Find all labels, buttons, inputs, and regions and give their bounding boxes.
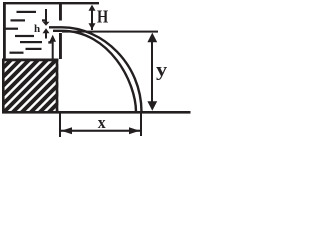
tank right wall upper — [59, 2, 62, 21]
svg-text:H: H — [97, 6, 108, 27]
orifice dimension up arrow — [43, 28, 50, 38]
tank left wall — [3, 2, 6, 59]
x dimension right witness line — [140, 114, 142, 137]
orifice dimension down arrow — [43, 9, 50, 26]
water dash row 2 — [11, 19, 26, 21]
reference line at exit level — [62, 31, 158, 33]
water dash row 7 — [10, 52, 24, 54]
jet lower curve — [53, 31, 136, 112]
pedestal border — [2, 59, 58, 113]
tank top line — [3, 2, 99, 4]
svg-text:y: y — [156, 60, 168, 81]
x dimension left arrowhead — [61, 127, 72, 134]
inner up arrow at orifice bottom — [49, 35, 56, 59]
pedestal hatched block — [0, 0, 170, 120]
x dimension left witness line — [59, 114, 61, 138]
x dimension right arrowhead — [129, 127, 140, 134]
hatching — [0, 0, 62, 120]
jet upper curve — [49, 27, 142, 112]
water dash row 2b — [42, 19, 46, 21]
svg-text:x: x — [98, 112, 107, 132]
ground line — [2, 111, 191, 114]
water dash row 4 — [15, 35, 34, 37]
H dimension up arrow — [89, 5, 96, 30]
water dash row 6 — [26, 48, 42, 50]
svg-text:h: h — [34, 23, 40, 35]
tank right wall lower — [59, 33, 62, 59]
x dimension line — [61, 130, 140, 132]
y dimension line with arrows — [147, 33, 157, 111]
water dash row 5 — [20, 41, 42, 43]
water dash fragment near wall — [48, 41, 51, 43]
water dash row 3 — [4, 28, 18, 30]
water dash row 1 — [17, 11, 37, 13]
